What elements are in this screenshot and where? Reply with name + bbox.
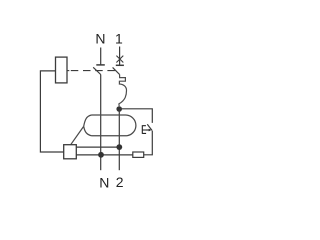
svg-text:N: N xyxy=(95,31,105,47)
wire: pole 1 vertical below dot xyxy=(118,109,120,170)
overcurrent release jog + half circle on pole 1 xyxy=(119,75,127,107)
arrow of test button E xyxy=(146,129,149,131)
wire: pole 1 top lead xyxy=(119,47,121,66)
terminal T-bar pole 1 xyxy=(116,64,124,66)
dashed mechanical linkage xyxy=(71,70,115,72)
wire: N pole vertical through toroid xyxy=(100,75,102,171)
switch blade N pole xyxy=(93,67,101,74)
svg-text:1: 1 xyxy=(115,31,123,47)
winding link: toroid to relay square xyxy=(71,126,84,144)
X mark on pole 1 terminal xyxy=(116,56,123,63)
svg-text:2: 2 xyxy=(116,174,124,190)
dashed mechanical linkage stub at trip rectangle xyxy=(67,70,69,72)
junction dot pole 1 lower xyxy=(116,144,122,150)
label E (test button) xyxy=(142,125,146,134)
terminal T-bar N pole xyxy=(96,64,105,66)
wire: lower horizontal relay to resistor xyxy=(76,154,133,156)
wire: test branch from dot to switch xyxy=(120,109,153,123)
trip solenoid rectangle xyxy=(56,57,68,83)
wire: left link from rectangle xyxy=(40,71,63,152)
switch blade pole 1 xyxy=(113,67,120,74)
test resistor xyxy=(133,152,144,157)
junction dot pole 1 / test branch xyxy=(116,106,122,112)
wire: resistor to test switch xyxy=(144,131,153,155)
relay square xyxy=(64,145,77,159)
junction dot N pole xyxy=(98,152,104,158)
wire: N pole top lead xyxy=(100,48,102,65)
wire: upper horizontal relay to pole 1 xyxy=(76,146,119,148)
toroidal CT (capsule with pointed left end) xyxy=(84,115,136,136)
test switch blade xyxy=(147,124,152,130)
svg-text:N: N xyxy=(99,174,109,190)
